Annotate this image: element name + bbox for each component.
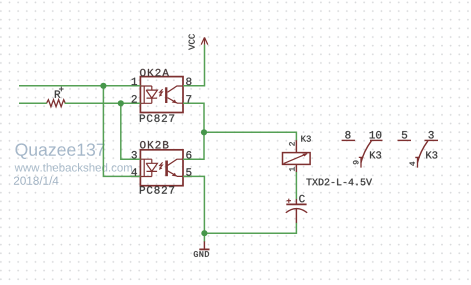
wire node down to pin 6 xyxy=(183,132,204,159)
relay coil arrowhead xyxy=(302,153,307,156)
junction node top wire A xyxy=(100,83,106,89)
capacitor C bottom curved plate xyxy=(286,209,307,213)
relay contact K3 no.2 blade xyxy=(418,141,428,163)
name K3 contact 2 xyxy=(426,151,437,158)
relay contact K3 no.1 blade xyxy=(361,141,371,163)
coil pin number 1 rotated xyxy=(289,167,294,171)
opto OK2A light arrow xyxy=(160,89,163,94)
coil pin number 2 rotated xyxy=(289,142,294,146)
wire pin 8 to VCC xyxy=(183,45,205,86)
wire resistor net left xyxy=(19,102,47,104)
opto OK2B light arrow xyxy=(160,162,163,167)
relay coil diagonal arrow xyxy=(284,154,308,164)
watermark Quazee137 xyxy=(15,143,104,159)
wire top net to pin 1 xyxy=(19,85,140,87)
wire node to relay coil xyxy=(204,132,296,140)
net label GND xyxy=(194,251,209,257)
relay contact K3 no.2 stub pin 5 xyxy=(398,139,412,141)
pin number 7 (OK2A) xyxy=(186,95,191,102)
resistor R zigzag xyxy=(47,100,66,107)
relay coil K3 pins xyxy=(295,140,297,173)
capacitor C top plate xyxy=(286,203,306,205)
watermark 2018/1/4 xyxy=(14,176,59,185)
name K3 contact 1 xyxy=(370,151,381,158)
wire junction B down to pin 3 xyxy=(121,103,141,159)
wire coil bottom to cap top xyxy=(295,172,297,199)
value TXD2-L-4.5V xyxy=(306,179,372,186)
opto OK2A box xyxy=(140,77,183,113)
contact pin number 3 xyxy=(428,131,433,138)
opto OK2B LED xyxy=(141,159,157,176)
wire pin 5 down to gnd node xyxy=(183,176,204,233)
contact pin number 5 xyxy=(402,131,407,138)
R plus mark xyxy=(59,87,63,91)
capacitor C plus sign xyxy=(287,199,291,203)
relay contact K3 no.2 stub pin 3 xyxy=(425,139,439,141)
value PC827 (OK2A) xyxy=(140,114,174,121)
contact pin number 8 xyxy=(345,131,350,138)
ground symbol bar xyxy=(199,248,209,250)
net label VCC rotated xyxy=(189,34,195,50)
junction node resistor wire B xyxy=(118,100,124,106)
name R xyxy=(55,91,60,98)
relay contact K3 no.2 common pin 4 xyxy=(415,157,420,167)
capacitor C top pin xyxy=(295,199,297,205)
capacitor C bottom pin xyxy=(295,209,297,223)
opto OK2A phototransistor xyxy=(165,87,167,103)
contact 1 pin number 9 rotated xyxy=(353,161,358,165)
VCC arrow xyxy=(201,37,208,44)
wire gnd node to cap bottom xyxy=(204,223,296,233)
name OK2B xyxy=(140,141,168,148)
junction node gnd xyxy=(201,230,207,236)
pin number 6 (OK2B) xyxy=(186,151,191,158)
relay coil K3 box xyxy=(283,153,311,165)
relay contact K3 no.1 stub pin 10 xyxy=(370,139,383,141)
wire gnd node to gnd symbol xyxy=(203,233,205,241)
ground symbol pin xyxy=(203,241,205,249)
wire junction A down to pin 4 xyxy=(103,86,140,177)
name OK2A xyxy=(140,69,169,76)
pin number 1 (OK2A) xyxy=(132,78,137,85)
contact pin number 10 xyxy=(370,131,382,138)
pin number 5 (OK2B) xyxy=(186,168,191,175)
pin number 8 (OK2A) xyxy=(186,78,191,85)
opto OK2B phototransistor xyxy=(165,161,168,177)
pin number 2 (OK2A) xyxy=(132,95,137,102)
watermark www.thebackshed.com xyxy=(15,163,133,171)
opto OK2A pin stubs xyxy=(131,86,192,104)
name K3 coil xyxy=(301,136,311,142)
junction node pin7/coil xyxy=(201,129,207,135)
pin number 4 (OK2B) xyxy=(131,168,136,175)
opto OK2A LED xyxy=(141,86,157,103)
wire resistor net right to pin 2 xyxy=(65,102,141,104)
relay contact K3 no.1 common pin 9 xyxy=(359,157,364,167)
contact 2 pin number 4 rotated xyxy=(410,162,415,166)
opto OK2B pin stubs xyxy=(131,159,192,176)
relay contact K3 no.1 stub pin 8 xyxy=(342,139,355,141)
name C xyxy=(299,195,305,202)
wire pin 7 down to node xyxy=(183,103,204,132)
pin number 3 (OK2B) xyxy=(132,151,137,158)
value PC827 (OK2B) xyxy=(140,186,174,193)
opto OK2B box xyxy=(140,150,183,186)
